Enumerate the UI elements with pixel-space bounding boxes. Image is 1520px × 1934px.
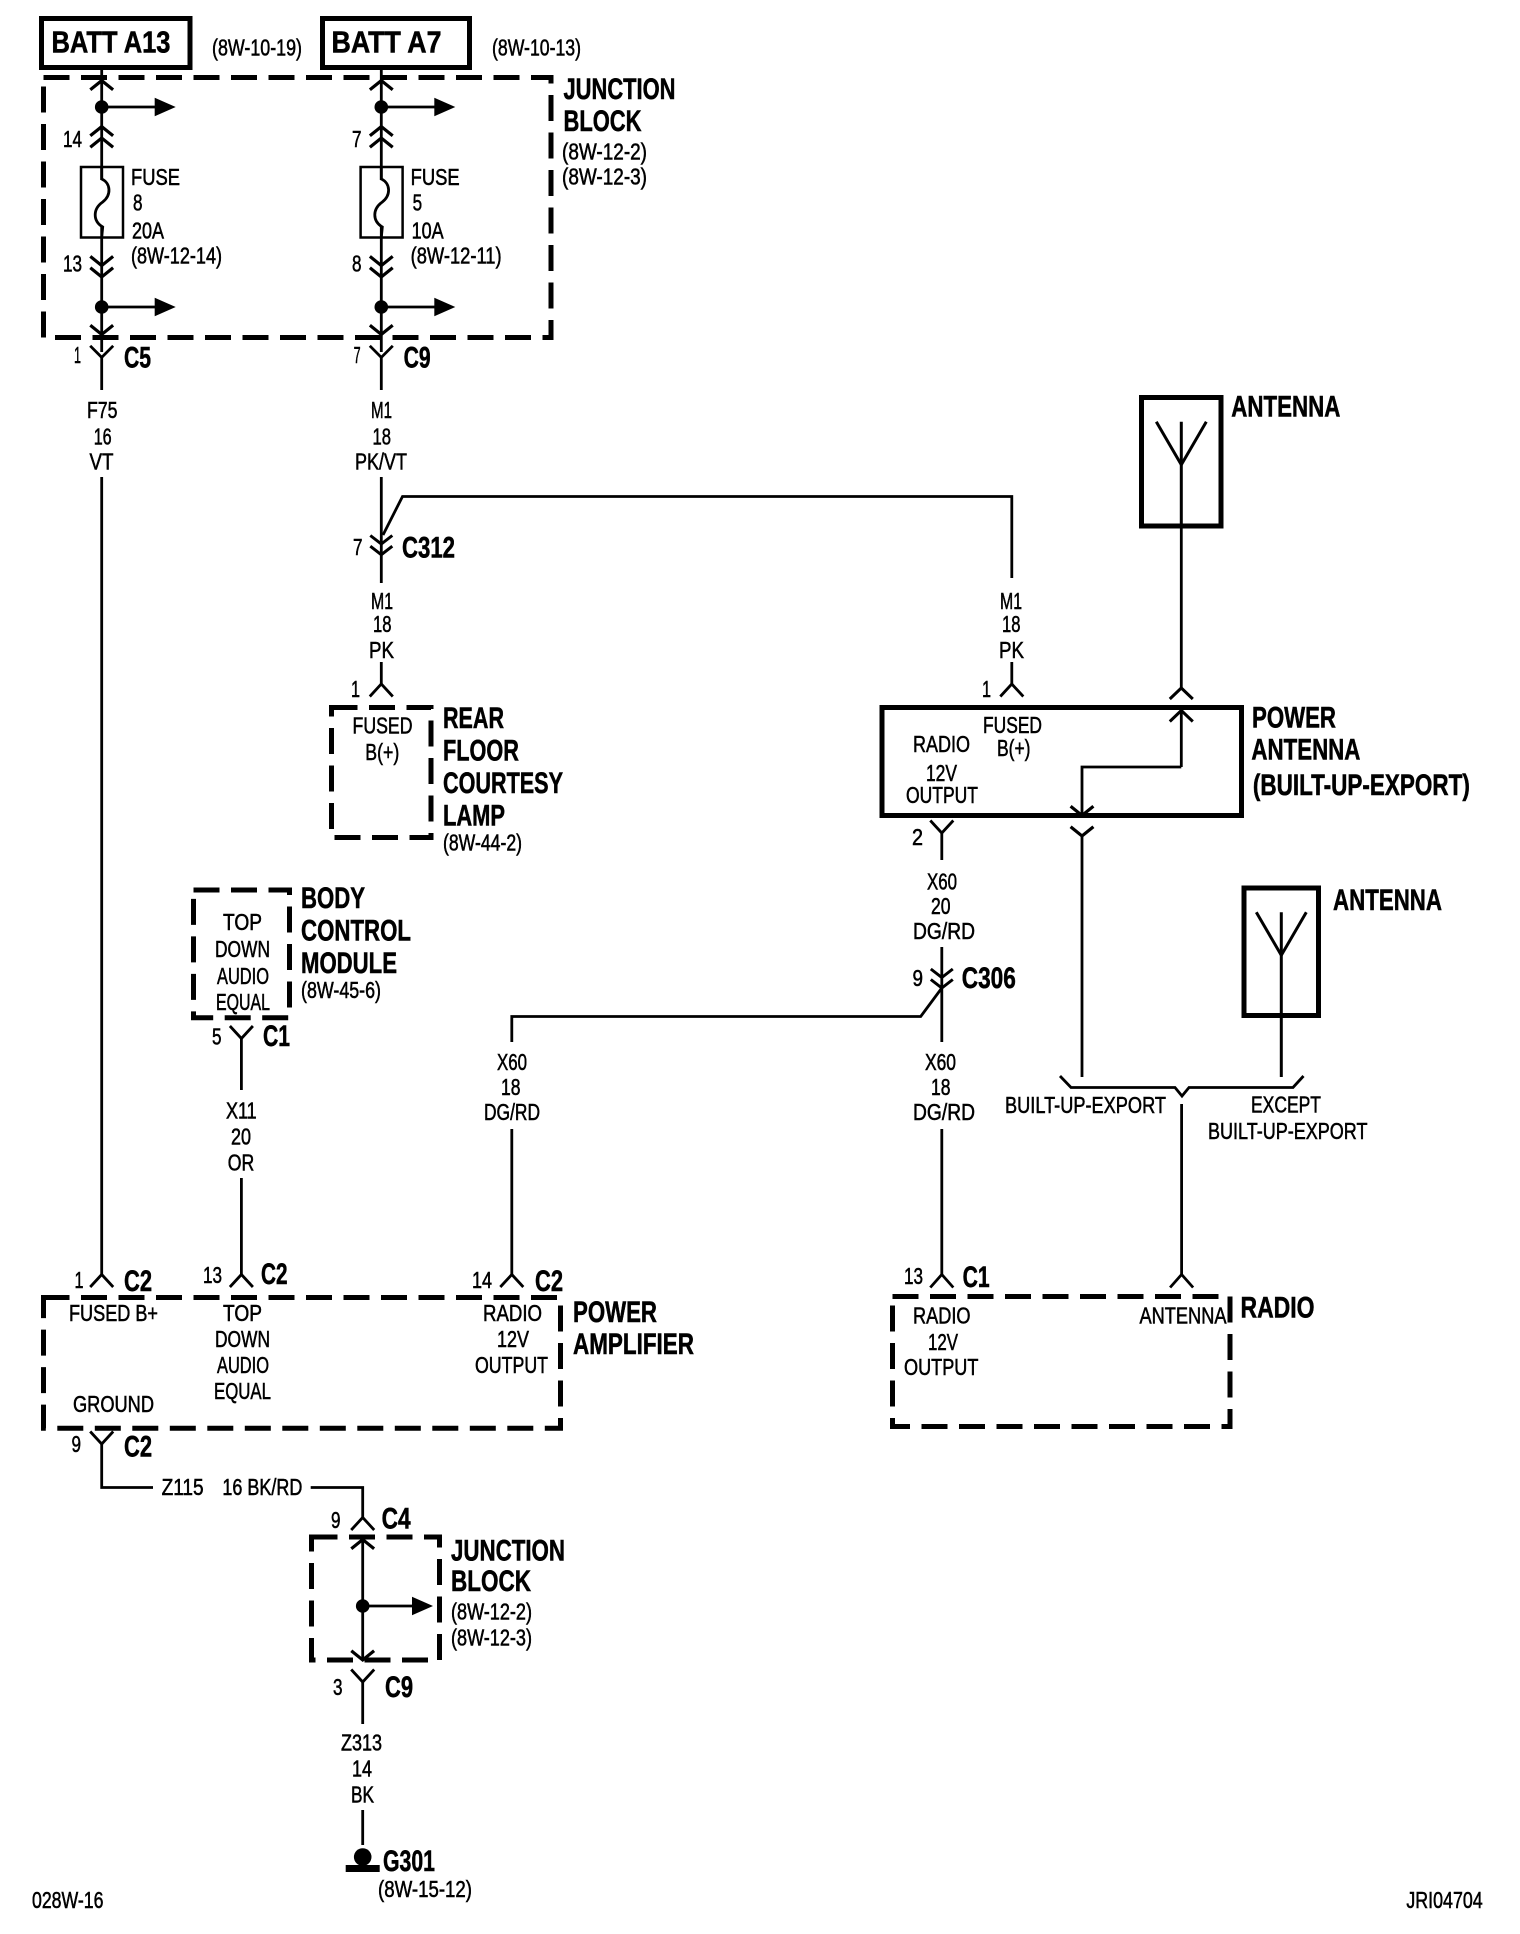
svg-text:7: 7 <box>353 534 363 560</box>
svg-text:DOWN: DOWN <box>215 1326 270 1352</box>
svg-text:POWER: POWER <box>1252 702 1336 735</box>
svg-text:(8W-12-14): (8W-12-14) <box>131 243 222 269</box>
svg-text:PK: PK <box>369 637 395 663</box>
svg-text:X60: X60 <box>927 869 957 895</box>
svg-text:14: 14 <box>352 1756 372 1782</box>
svg-text:C9: C9 <box>385 1671 413 1704</box>
svg-text:(8W-12-11): (8W-12-11) <box>411 243 502 269</box>
svg-text:ANTENNA: ANTENNA <box>1333 884 1442 917</box>
svg-text:BLOCK: BLOCK <box>564 105 642 138</box>
svg-text:X11: X11 <box>226 1097 257 1123</box>
svg-text:(8W-10-13): (8W-10-13) <box>492 35 581 61</box>
svg-text:9: 9 <box>72 1431 82 1457</box>
svg-text:LAMP: LAMP <box>443 800 505 833</box>
svg-text:EQUAL: EQUAL <box>216 989 270 1015</box>
svg-text:18: 18 <box>931 1074 951 1100</box>
svg-text:C2: C2 <box>535 1265 563 1298</box>
svg-text:RADIO: RADIO <box>913 731 970 757</box>
svg-text:PK/VT: PK/VT <box>355 449 407 475</box>
svg-text:JRI04704: JRI04704 <box>1406 1887 1482 1913</box>
svg-text:14: 14 <box>63 126 82 152</box>
svg-text:TOP: TOP <box>223 909 262 935</box>
svg-text:X60: X60 <box>497 1049 527 1075</box>
svg-text:FUSED B+: FUSED B+ <box>69 1300 158 1326</box>
svg-text:DG/RD: DG/RD <box>913 918 975 944</box>
svg-text:(8W-12-2): (8W-12-2) <box>451 1599 532 1625</box>
svg-text:028W-16: 028W-16 <box>32 1887 104 1913</box>
svg-text:C2: C2 <box>261 1258 288 1291</box>
svg-text:C9: C9 <box>404 342 431 375</box>
svg-text:7: 7 <box>354 342 361 368</box>
svg-text:C1: C1 <box>263 1020 290 1053</box>
svg-text:M1: M1 <box>371 397 392 423</box>
svg-text:DOWN: DOWN <box>215 936 270 962</box>
svg-text:BLOCK: BLOCK <box>451 1565 531 1598</box>
svg-text:AMPLIFIER: AMPLIFIER <box>573 1328 694 1361</box>
svg-text:18: 18 <box>373 611 392 637</box>
svg-text:2: 2 <box>912 824 923 850</box>
svg-text:(8W-12-3): (8W-12-3) <box>451 1625 532 1651</box>
svg-text:C5: C5 <box>124 342 151 375</box>
svg-text:EQUAL: EQUAL <box>214 1378 271 1404</box>
svg-text:(8W-12-3): (8W-12-3) <box>562 164 647 190</box>
svg-text:RADIO: RADIO <box>483 1300 542 1326</box>
svg-text:JUNCTION: JUNCTION <box>451 1535 565 1568</box>
svg-text:C4: C4 <box>382 1503 411 1536</box>
svg-text:ANTENNA: ANTENNA <box>1251 734 1360 767</box>
svg-text:14: 14 <box>472 1267 492 1293</box>
svg-text:VT: VT <box>90 449 114 475</box>
svg-text:8: 8 <box>352 250 362 276</box>
svg-text:DG/RD: DG/RD <box>913 1099 975 1125</box>
svg-text:BUILT-UP-EXPORT: BUILT-UP-EXPORT <box>1208 1118 1368 1144</box>
svg-text:18: 18 <box>1002 611 1021 637</box>
svg-text:(8W-10-19): (8W-10-19) <box>212 35 302 61</box>
svg-text:1: 1 <box>74 342 81 368</box>
svg-text:BODY: BODY <box>301 882 365 915</box>
svg-text:18: 18 <box>501 1074 521 1100</box>
svg-text:13: 13 <box>63 250 82 276</box>
svg-text:BATT A7: BATT A7 <box>332 25 442 60</box>
svg-text:G301: G301 <box>383 1845 435 1878</box>
svg-text:ANTENNA: ANTENNA <box>1231 391 1340 424</box>
svg-text:JUNCTION: JUNCTION <box>564 73 676 106</box>
svg-text:18: 18 <box>373 424 392 450</box>
svg-text:X60: X60 <box>925 1049 956 1075</box>
svg-text:C1: C1 <box>963 1261 990 1294</box>
svg-text:BATT A13: BATT A13 <box>52 25 171 60</box>
svg-text:(BUILT-UP-EXPORT): (BUILT-UP-EXPORT) <box>1253 769 1470 802</box>
svg-text:REAR: REAR <box>443 702 504 735</box>
svg-text:9: 9 <box>331 1507 341 1533</box>
svg-text:C2: C2 <box>124 1265 152 1298</box>
svg-text:(8W-12-2): (8W-12-2) <box>562 139 647 165</box>
svg-text:1: 1 <box>351 676 360 702</box>
svg-text:5: 5 <box>212 1024 222 1050</box>
svg-text:8: 8 <box>133 190 143 216</box>
svg-text:AUDIO: AUDIO <box>217 1352 269 1378</box>
svg-text:C2: C2 <box>124 1431 152 1464</box>
svg-text:PK: PK <box>999 637 1025 663</box>
svg-text:RADIO: RADIO <box>1241 1292 1315 1325</box>
svg-text:FUSE: FUSE <box>131 164 180 190</box>
svg-text:3: 3 <box>333 1674 343 1700</box>
svg-text:B(+): B(+) <box>365 739 399 765</box>
svg-text:(8W-45-6): (8W-45-6) <box>301 977 381 1003</box>
svg-text:10A: 10A <box>412 218 445 244</box>
svg-text:POWER: POWER <box>573 1296 657 1329</box>
svg-text:OUTPUT: OUTPUT <box>475 1352 548 1378</box>
svg-text:Z313: Z313 <box>341 1730 382 1756</box>
svg-text:13: 13 <box>203 1262 222 1288</box>
svg-text:FLOOR: FLOOR <box>443 735 519 768</box>
svg-text:5: 5 <box>413 190 423 216</box>
svg-text:12V: 12V <box>497 1326 530 1352</box>
svg-text:EXCEPT: EXCEPT <box>1251 1092 1321 1118</box>
svg-text:13: 13 <box>904 1263 923 1289</box>
svg-text:1: 1 <box>982 676 991 702</box>
svg-text:20A: 20A <box>132 218 165 244</box>
svg-text:(8W-15-12): (8W-15-12) <box>378 1876 472 1902</box>
svg-text:12V: 12V <box>928 1329 958 1355</box>
svg-text:16 BK/RD: 16 BK/RD <box>222 1474 302 1500</box>
svg-text:1: 1 <box>75 1267 84 1293</box>
svg-text:RADIO: RADIO <box>913 1303 971 1329</box>
svg-text:OUTPUT: OUTPUT <box>904 1354 978 1380</box>
svg-text:F75: F75 <box>87 397 118 423</box>
svg-text:FUSE: FUSE <box>411 164 460 190</box>
svg-text:BUILT-UP-EXPORT: BUILT-UP-EXPORT <box>1005 1092 1166 1118</box>
svg-text:FUSED: FUSED <box>353 713 413 739</box>
svg-text:TOP: TOP <box>223 1300 262 1326</box>
svg-text:COURTESY: COURTESY <box>443 767 563 800</box>
svg-text:ANTENNA: ANTENNA <box>1140 1303 1228 1329</box>
svg-text:OUTPUT: OUTPUT <box>906 782 978 808</box>
svg-text:Z115: Z115 <box>162 1474 204 1500</box>
svg-text:B(+): B(+) <box>997 735 1031 761</box>
svg-text:BK: BK <box>351 1782 374 1808</box>
svg-text:CONTROL: CONTROL <box>301 915 411 948</box>
svg-text:MODULE: MODULE <box>301 947 397 980</box>
svg-text:C312: C312 <box>402 532 455 565</box>
svg-text:7: 7 <box>352 126 362 152</box>
svg-text:20: 20 <box>231 1124 251 1150</box>
svg-text:AUDIO: AUDIO <box>217 963 269 989</box>
svg-text:DG/RD: DG/RD <box>484 1099 540 1125</box>
svg-text:OR: OR <box>228 1149 255 1175</box>
svg-text:9: 9 <box>913 965 924 991</box>
svg-text:(8W-44-2): (8W-44-2) <box>443 830 522 856</box>
svg-text:C306: C306 <box>962 962 1016 995</box>
svg-text:16: 16 <box>94 424 112 450</box>
svg-text:GROUND: GROUND <box>73 1391 154 1417</box>
svg-text:20: 20 <box>931 893 951 919</box>
